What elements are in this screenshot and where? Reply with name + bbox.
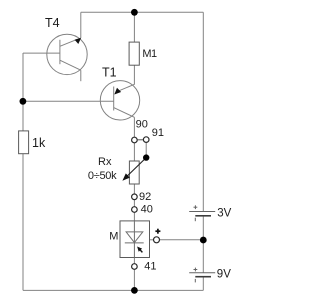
svg-text:T1: T1 (102, 65, 117, 79)
svg-text:0÷50k: 0÷50k (88, 170, 117, 182)
svg-text:3V: 3V (217, 208, 231, 220)
svg-text:9V: 9V (217, 268, 231, 280)
svg-text:M1: M1 (142, 48, 157, 60)
svg-text:Rx: Rx (98, 156, 112, 168)
svg-text:40: 40 (141, 204, 153, 216)
svg-text:1k: 1k (32, 136, 46, 150)
svg-text:M: M (109, 231, 118, 243)
svg-text:41: 41 (144, 260, 156, 272)
svg-text:90: 90 (136, 119, 148, 131)
svg-text:T4: T4 (45, 16, 60, 30)
svg-text:91: 91 (152, 127, 164, 139)
svg-text:92: 92 (139, 191, 151, 203)
